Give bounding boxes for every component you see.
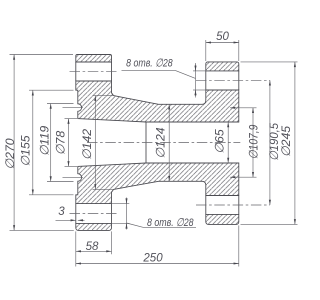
bore step line at cone end: [145, 122, 147, 163]
svg-text:∅65: ∅65: [212, 129, 226, 154]
dim d65: [212, 122, 228, 163]
svg-text:250: 250: [142, 253, 163, 265]
part body lower half cross-section (hatched): [76, 163, 239, 204]
svg-text:3: 3: [58, 206, 65, 218]
dim 250 bottom: [76, 225, 239, 266]
dim d245: [241, 62, 298, 225]
right flange bolt hole opening edges: [206, 71, 239, 215]
dim d190.5: [267, 80, 282, 205]
dim d119: [38, 104, 74, 182]
right flange top rim (hatched): [206, 62, 239, 71]
left flange bottom rim (hatched): [76, 223, 112, 230]
svg-text:8 отв. ∅28: 8 отв. ∅28: [126, 58, 173, 70]
dim d155: [18, 90, 73, 195]
dim d28 top holes (8 otv.): [122, 58, 207, 98]
dim d124: [153, 104, 169, 181]
svg-text:50: 50: [216, 31, 229, 43]
right flange top bolt hole centerline: [196, 79, 270, 81]
svg-text:∅124: ∅124: [153, 127, 167, 158]
dim 3 recess depth: [56, 206, 85, 220]
svg-text:∅155: ∅155: [18, 135, 32, 166]
left flange bottom bolt hole centerline: [70, 213, 117, 215]
left flange top bolt hole centerline: [70, 70, 117, 72]
svg-text:∅142: ∅142: [80, 129, 94, 160]
left flange top rim (hatched): [76, 55, 112, 63]
right flange bottom rim (hatched): [206, 214, 239, 224]
left flange bolt hole opening edges (face lines through hole bands): [76, 62, 112, 223]
svg-text:58: 58: [86, 241, 99, 253]
dim 50 top right: [206, 31, 239, 61]
dim d142: [80, 96, 114, 190]
dim d107.9: [230, 108, 261, 177]
svg-text:∅245: ∅245: [279, 126, 293, 157]
top face groove centerline: [63, 107, 84, 109]
part body upper half cross-section (hatched): [76, 81, 239, 122]
main horizontal axis centerline: [87, 142, 240, 144]
right flange bottom bolt hole centerline: [196, 204, 270, 206]
svg-text:∅119: ∅119: [38, 126, 52, 156]
dim d270: [3, 55, 74, 231]
svg-text:∅270: ∅270: [3, 138, 17, 169]
svg-text:8 отв. ∅28: 8 отв. ∅28: [147, 217, 194, 229]
bottom face groove centerline: [63, 176, 84, 178]
dim d78: [53, 119, 77, 167]
dim d28 bottom holes (8 otv.): [112, 198, 197, 230]
svg-text:∅78: ∅78: [53, 131, 67, 156]
svg-text:∅107,9: ∅107,9: [248, 124, 261, 159]
dim 58 bottom left: [76, 231, 112, 266]
